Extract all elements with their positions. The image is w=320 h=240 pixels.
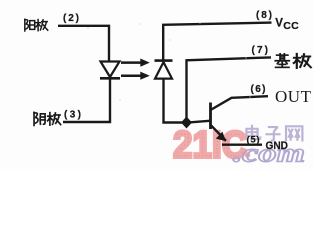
watermark char 网 — [286, 126, 302, 141]
svg-text:GND: GND — [266, 140, 289, 152]
LED D1 cathode bar — [100, 77, 120, 80]
label 阴 (of 阴极) — [34, 112, 45, 125]
label 基 (of 基极) — [275, 54, 289, 68]
photodiode D2 cathode bar — [155, 59, 173, 62]
transistor Q1 collector / wire OUT (6) — [211, 96, 269, 110]
transistor Q1 base bar — [209, 103, 212, 130]
svg-text:OUT: OUT — [275, 87, 312, 106]
svg-text:(2): (2) — [63, 13, 79, 24]
svg-text:V: V — [275, 17, 283, 29]
svg-text:CC: CC — [283, 20, 299, 32]
wire anode (2) — [58, 26, 109, 61]
emitter arrowhead — [216, 132, 226, 142]
light arrow 1 — [121, 59, 150, 67]
LED D1 triangle — [101, 62, 120, 78]
wire Vcc (8) — [163, 23, 271, 61]
watermark 21IC — [173, 125, 250, 167]
svg-text:(8): (8) — [256, 10, 272, 21]
watermark char 电 — [246, 125, 260, 139]
wire photodiode to node — [164, 79, 184, 123]
wire cathode (3) — [63, 79, 110, 122]
watermark char 子 — [265, 127, 280, 141]
transistor Q1 emitter — [211, 125, 227, 141]
node junction — [181, 117, 192, 129]
label 极 (of 阳极) — [36, 20, 48, 31]
svg-text:(7): (7) — [252, 45, 269, 56]
svg-text:(6): (6) — [251, 84, 266, 95]
scan speckles — [51, 22, 250, 123]
label 极 (of 阴极) — [48, 113, 61, 125]
wire node to transistor base — [189, 121, 210, 123]
svg-text:(3): (3) — [64, 110, 81, 121]
photodiode D2 triangle — [155, 62, 172, 79]
wire base (7) — [187, 57, 272, 119]
label 阳 (of 阳极) — [25, 19, 35, 31]
label 极 (of 基极) — [294, 54, 311, 68]
light arrow 2 — [121, 72, 150, 80]
wire GND (5) — [222, 143, 262, 145]
